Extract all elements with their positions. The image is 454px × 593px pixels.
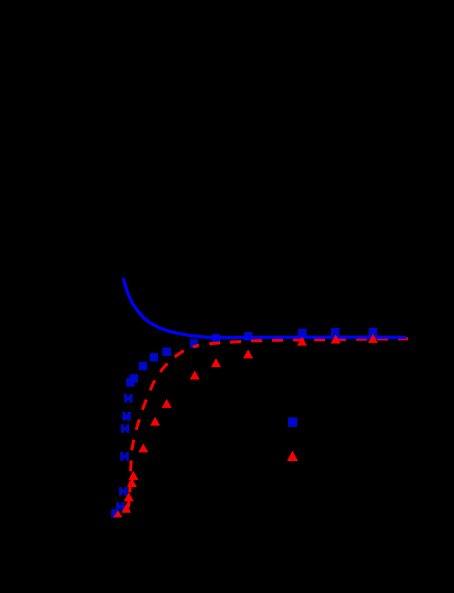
data square S17	[331, 328, 340, 337]
blue solid theory curve (decays to plateau)	[124, 279, 405, 337]
data square series (blue filled squares, rising branch then plateau)	[111, 328, 377, 518]
data square S12	[162, 348, 171, 357]
data triangle T11	[243, 349, 253, 358]
data square S7	[124, 394, 132, 403]
data square S14	[212, 334, 221, 343]
data square S9	[129, 374, 138, 383]
data triangle T5	[128, 471, 138, 480]
data square S6	[122, 412, 131, 421]
data square S13	[190, 339, 199, 348]
black fit-line dashes crossing steep-branch squares (notches)	[119, 394, 129, 511]
legend marker: blue square	[288, 417, 298, 427]
data square S1	[111, 509, 120, 518]
data triangle T12	[297, 337, 307, 346]
data square S5	[121, 424, 130, 433]
data square S2	[116, 502, 125, 511]
data triangle T14	[368, 334, 378, 343]
data triangle T8	[162, 399, 172, 408]
data triangle T6	[138, 443, 148, 452]
red dashed fit curve, plateau section	[199, 339, 409, 346]
data triangle T2	[122, 504, 131, 513]
data triangle T10	[211, 358, 221, 367]
data square S15	[244, 332, 253, 341]
red dashed fit curve, steep rising branch	[117, 345, 199, 518]
data triangle T1	[113, 511, 122, 518]
data triangle T9	[190, 371, 200, 380]
data square S16	[298, 329, 307, 338]
red triangle series (rising branch then plateau)	[113, 334, 378, 517]
data square S3	[119, 487, 128, 496]
red dash patch on steep tail	[127, 497, 131, 508]
data triangle T3	[124, 492, 134, 501]
data square S4	[120, 452, 129, 461]
data square S8	[126, 378, 134, 387]
data square S10	[139, 362, 148, 371]
data triangle T13	[331, 335, 341, 344]
data triangle T7	[150, 417, 160, 426]
data square S18	[369, 328, 378, 337]
data triangle T4	[127, 478, 137, 487]
data square S11	[150, 353, 159, 362]
legend marker: red triangle	[287, 451, 298, 461]
